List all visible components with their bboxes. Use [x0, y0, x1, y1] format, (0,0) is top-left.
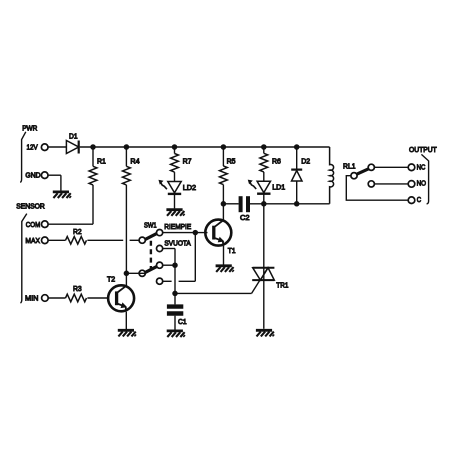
svg-text:SVUOTA: SVUOTA — [164, 238, 191, 247]
svg-text:R7: R7 — [183, 157, 192, 166]
svg-text:OUTPUT: OUTPUT — [409, 145, 437, 154]
svg-text:TR1: TR1 — [276, 281, 288, 290]
svg-text:R1: R1 — [97, 157, 106, 166]
svg-text:T2: T2 — [107, 274, 115, 283]
svg-text:MAX: MAX — [25, 236, 40, 245]
svg-text:T1: T1 — [228, 246, 236, 255]
svg-text:C2: C2 — [240, 213, 250, 222]
svg-text:R5: R5 — [227, 157, 236, 166]
svg-text:R3: R3 — [73, 284, 82, 293]
svg-text:SENSOR: SENSOR — [16, 202, 45, 211]
svg-text:D1: D1 — [69, 132, 78, 141]
svg-text:NC: NC — [417, 163, 426, 172]
svg-text:NO: NO — [417, 179, 426, 188]
svg-text:12V: 12V — [27, 143, 39, 152]
svg-text:MIN: MIN — [25, 293, 38, 302]
svg-text:LD1: LD1 — [272, 183, 285, 192]
svg-text:C: C — [417, 195, 422, 204]
svg-text:LD2: LD2 — [183, 183, 196, 192]
svg-text:D2: D2 — [301, 156, 310, 165]
svg-text:COM: COM — [26, 220, 41, 229]
svg-text:RL1: RL1 — [343, 162, 356, 171]
svg-text:R4: R4 — [130, 157, 139, 166]
svg-text:GND: GND — [25, 171, 41, 180]
svg-text:R6: R6 — [272, 156, 281, 165]
svg-text:RIEMPIE: RIEMPIE — [164, 222, 191, 231]
svg-text:C1: C1 — [178, 317, 187, 326]
svg-text:PWR: PWR — [22, 124, 38, 133]
svg-text:SW1: SW1 — [144, 221, 157, 230]
svg-text:R2: R2 — [73, 227, 82, 236]
